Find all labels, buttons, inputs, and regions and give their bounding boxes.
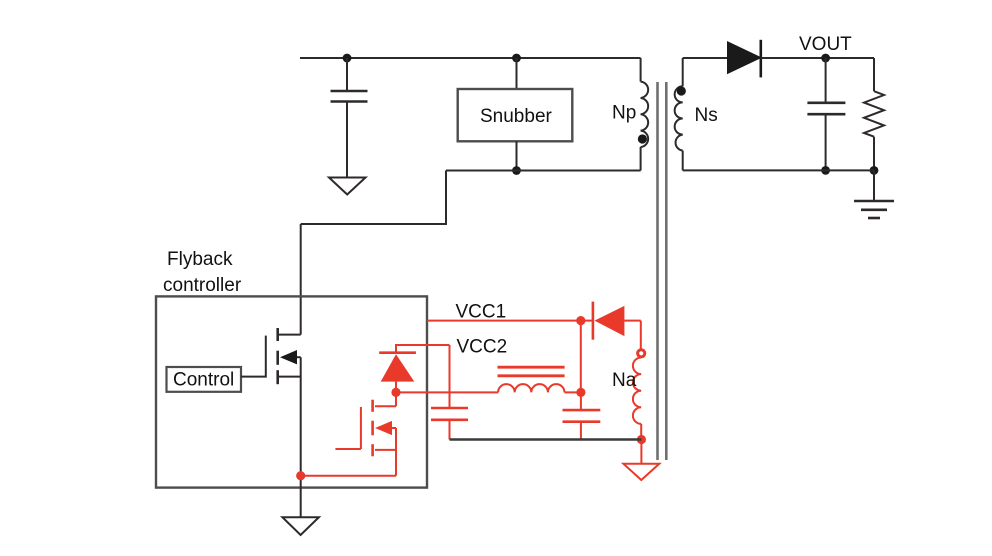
transformer primary winding Np bbox=[641, 58, 649, 171]
wire resistor bottom lead bbox=[873, 137, 875, 171]
node resistor bottom junction bbox=[870, 166, 879, 175]
svg-text:Np: Np bbox=[612, 103, 636, 124]
node snubber top junction bbox=[512, 54, 521, 63]
flyback controller box U1 bbox=[156, 296, 427, 487]
inductor L-filter bbox=[498, 384, 564, 392]
wire aux winding top lead bbox=[640, 321, 642, 349]
drain bar bbox=[279, 334, 301, 336]
resistor R-load bbox=[864, 91, 884, 137]
gate lead bbox=[335, 448, 361, 450]
wire input cap bottom lead bbox=[346, 102, 348, 178]
capacitor C-out bbox=[807, 103, 845, 114]
node primary phase dot bbox=[638, 134, 647, 143]
wire step down segment bbox=[301, 171, 446, 225]
gate bar bbox=[360, 407, 362, 449]
drain bar bbox=[375, 405, 396, 407]
node vcc1 cap junction bbox=[576, 388, 585, 397]
transformer secondary winding Ns bbox=[675, 58, 683, 170]
wire VCC2 drop bbox=[449, 345, 451, 408]
gate lead bbox=[241, 376, 266, 378]
drain lead bbox=[395, 392, 397, 406]
ground output earth bbox=[854, 201, 894, 218]
node input-cap junction bbox=[343, 54, 352, 63]
svg-text:Na: Na bbox=[612, 370, 637, 391]
wire top input rail bbox=[300, 57, 641, 59]
node VCC1 junction bbox=[576, 316, 585, 325]
channel segments bbox=[276, 328, 279, 341]
channel segments bbox=[371, 400, 374, 412]
svg-text:Flyback: Flyback bbox=[167, 249, 233, 270]
control block bbox=[167, 367, 242, 392]
svg-text:controller: controller bbox=[163, 275, 242, 296]
capacitor C-in bbox=[331, 91, 368, 102]
node pwm-gnd red dot bbox=[296, 471, 305, 480]
gate bar bbox=[265, 336, 267, 378]
wire inductor to vcc1 cap bbox=[565, 391, 581, 393]
wire input cap top lead bbox=[346, 58, 348, 90]
node vcc2 mosfet junction bbox=[391, 388, 400, 397]
transistor Q2 aux mosfet bbox=[335, 392, 396, 475]
capacitor C-vcc2 bbox=[431, 408, 468, 440]
wire primary bottom rail bbox=[446, 170, 641, 172]
node vout junction bbox=[821, 54, 830, 63]
svg-text:VCC1: VCC1 bbox=[456, 302, 507, 323]
wire snubber top lead bbox=[516, 58, 518, 89]
inductor L-filter core bars bbox=[498, 367, 565, 376]
wire VCC2 bbox=[396, 345, 450, 353]
diode output rectifier bbox=[728, 40, 761, 78]
wire aux source return bbox=[301, 475, 396, 477]
body arrow bbox=[375, 421, 392, 435]
svg-text:Ns: Ns bbox=[695, 105, 718, 126]
svg-text:VOUT: VOUT bbox=[799, 34, 852, 55]
wire VCC1 bbox=[427, 320, 581, 322]
ground primary bbox=[282, 517, 319, 535]
wire snubber bottom lead bbox=[516, 141, 518, 170]
wire secondary bottom rail bbox=[683, 169, 874, 171]
wire aux gnd lead bbox=[640, 440, 642, 464]
svg-text:Control: Control bbox=[173, 370, 234, 391]
wire drain bus bbox=[300, 224, 302, 335]
wire earth ground lead bbox=[873, 170, 875, 201]
svg-text:Snubber: Snubber bbox=[480, 106, 553, 127]
svg-text:VCC2: VCC2 bbox=[457, 337, 508, 358]
transformer core bbox=[658, 82, 667, 460]
node aux phase ring bbox=[638, 350, 645, 357]
diode D-aux bbox=[581, 302, 641, 340]
node secondary phase dot bbox=[677, 86, 686, 95]
ground aux red bbox=[623, 464, 659, 480]
transformer aux winding Na bbox=[633, 358, 641, 440]
wire aux ground rail bbox=[450, 438, 642, 440]
wire vcc1 riser bbox=[580, 321, 582, 393]
node output cap bottom junction bbox=[821, 166, 830, 175]
node snubber bottom junction bbox=[512, 166, 521, 175]
body arrow bbox=[280, 350, 297, 364]
source down lead bbox=[395, 428, 397, 476]
wire output cap top lead bbox=[825, 58, 827, 102]
wire source bus down bbox=[300, 357, 302, 517]
diode D-internal bbox=[379, 353, 416, 393]
node aux gnd junction bbox=[637, 435, 646, 444]
wire to filter inductor bbox=[396, 391, 498, 393]
source bar bbox=[279, 376, 301, 378]
ground input bbox=[329, 178, 366, 195]
source bar bbox=[375, 449, 396, 451]
wire diode to vout bbox=[761, 57, 874, 59]
transistor Q1 main mosfet bbox=[241, 328, 301, 384]
capacitor C-vcc1 bbox=[563, 392, 601, 439]
wire resistor top lead bbox=[873, 58, 875, 91]
snubber box bbox=[458, 89, 573, 141]
wire secondary top rail bbox=[683, 57, 728, 59]
wire output cap bottom lead bbox=[825, 114, 827, 170]
